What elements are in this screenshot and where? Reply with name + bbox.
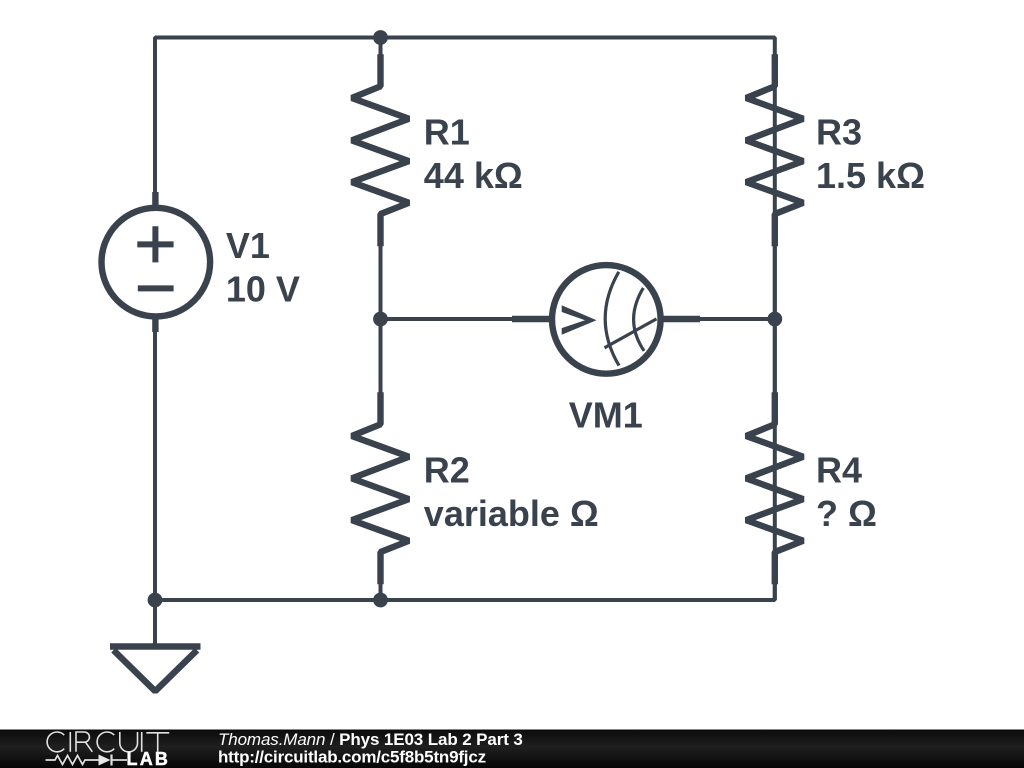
svg-text:V1: V1 — [226, 225, 270, 266]
svg-text:http://circuitlab.com/c5f8b5tn: http://circuitlab.com/c5f8b5tn9fjcz — [218, 748, 486, 767]
svg-text:10 V: 10 V — [226, 269, 300, 310]
svg-text:R1: R1 — [424, 112, 470, 153]
svg-text:R2: R2 — [424, 449, 470, 490]
svg-text:variable Ω: variable Ω — [424, 493, 599, 534]
svg-text:LAB: LAB — [127, 749, 171, 768]
svg-text:R3: R3 — [816, 112, 862, 153]
svg-text:Thomas.Mann / Phys 1E03 Lab 2: Thomas.Mann / Phys 1E03 Lab 2 Part 3 — [218, 730, 523, 749]
svg-text:? Ω: ? Ω — [816, 493, 877, 534]
svg-text:VM1: VM1 — [569, 395, 643, 436]
svg-text:1.5 kΩ: 1.5 kΩ — [816, 155, 925, 196]
svg-text:44 kΩ: 44 kΩ — [424, 155, 523, 196]
svg-text:R4: R4 — [816, 449, 862, 490]
